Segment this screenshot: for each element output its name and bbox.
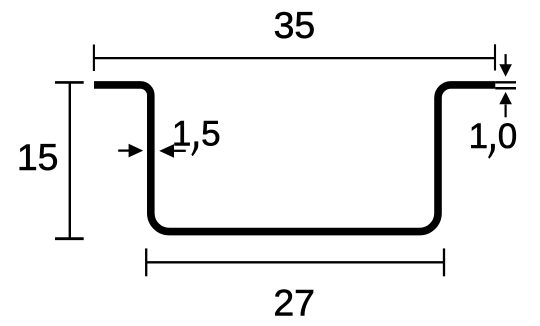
arrow right pointing left at web (1,5) (174, 150, 186, 152)
svg-text:35: 35 (274, 4, 316, 46)
svg-text:27: 27 (273, 281, 315, 323)
dimension line 35 (94, 57, 495, 59)
material thickness extension line top (495, 81, 516, 83)
arrow up at flange bottom (1,0) (505, 105, 507, 118)
comma tail of 1,5 (191, 145, 198, 157)
tick top of 15 (55, 81, 84, 84)
material thickness extension line bottom (495, 87, 516, 90)
comma tail of 1,0 (488, 147, 495, 159)
tick right of 35 (494, 44, 496, 70)
dimension line 15 (69, 82, 71, 238)
svg-text:15: 15 (17, 136, 59, 178)
tick left of 27 (145, 248, 147, 276)
arrow left pointing right at web (1,5) (118, 149, 130, 151)
arrow down at flange top (1,0) (505, 54, 507, 65)
tick left of 35 (93, 45, 95, 72)
tick bottom of 15 (55, 237, 84, 240)
DIN rail profile (top-hat cross-section) (94, 85, 495, 232)
dimension line 27 (146, 261, 444, 263)
tick right of 27 (443, 248, 445, 276)
